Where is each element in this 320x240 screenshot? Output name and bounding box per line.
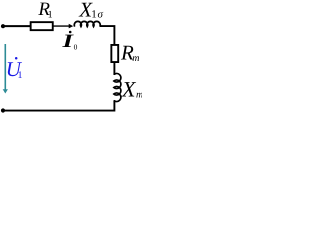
svg-text:I: I — [61, 31, 74, 52]
svg-text:1: 1 — [18, 70, 23, 81]
node bottom-left terminal — [1, 108, 5, 112]
wire bottom from Xm to bottom-left node — [3, 100, 114, 110]
voltage arrow U1 (teal, pointing down) — [4, 44, 6, 90]
svg-text:1: 1 — [48, 10, 53, 21]
inductor X1sigma — [74, 21, 100, 26]
svg-text:X: X — [121, 76, 137, 101]
svg-text:m: m — [136, 90, 142, 101]
wire with current arrow between R1 and X1sigma — [53, 25, 70, 27]
wire between Rm and Xm — [113, 63, 115, 76]
svg-text:σ: σ — [98, 9, 104, 21]
wire top-right corner down — [100, 26, 115, 44]
svg-text:1: 1 — [91, 8, 97, 20]
node top-left terminal — [1, 24, 5, 28]
resistor R1 — [31, 22, 53, 30]
resistor Rm — [111, 45, 118, 62]
wire top-left horizontal — [3, 25, 31, 27]
svg-text:0: 0 — [74, 42, 78, 51]
inductor Xm — [114, 73, 121, 101]
svg-text:m: m — [132, 53, 139, 64]
